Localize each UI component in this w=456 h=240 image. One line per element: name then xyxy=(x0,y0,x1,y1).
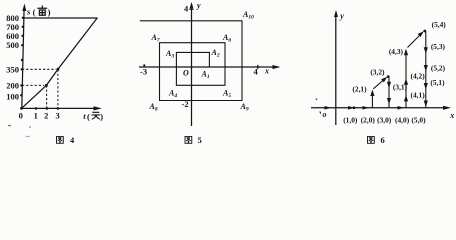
fig6 vertical segment x=3 from (3,2) to (3,0) xyxy=(388,77,390,108)
fig6 y-axis xyxy=(335,14,337,125)
fig5 tick at x=-3 xyxy=(143,65,145,67)
svg-text:(5,3): (5,3) xyxy=(431,42,446,51)
fig6 diagonal (4,3) to (5,4) xyxy=(408,34,422,48)
fig6 down arrowhead at (3,1) xyxy=(387,82,391,89)
svg-text:y: y xyxy=(339,12,344,21)
fig6 up arrowhead at (4,3) xyxy=(404,49,408,56)
svg-text:(4,0): (4,0) xyxy=(395,116,410,125)
fig4 x-axis xyxy=(22,107,96,109)
fig5 x-axis arrowhead xyxy=(273,65,281,69)
svg-text:(: ( xyxy=(87,112,90,122)
fig6 y-axis arrowhead xyxy=(334,10,338,17)
fig6 up arrowhead at (4,1) xyxy=(404,95,408,102)
fig6 down arrowhead at (5,2) xyxy=(424,65,428,72)
svg-text:o: o xyxy=(323,110,327,119)
fig5 spiral polyline A1..A11 xyxy=(140,21,242,101)
svg-text:(2,0): (2,0) xyxy=(361,116,376,125)
fig5 caption 图 5 xyxy=(185,136,192,143)
svg-text:(5,4): (5,4) xyxy=(432,20,447,29)
fig6 x-axis xyxy=(311,107,444,109)
svg-text:3: 3 xyxy=(55,111,59,121)
scan speck near fig4 bottom left xyxy=(8,124,11,127)
svg-text:(: ( xyxy=(33,7,36,17)
svg-text:y: y xyxy=(196,1,201,10)
fig4 dashed horizontal at 350 xyxy=(22,68,56,70)
fig4 x-axis arrowhead xyxy=(94,106,102,110)
fig6 diagonal (2,1) to (3,2) xyxy=(373,78,385,89)
svg-text:(5,2): (5,2) xyxy=(431,63,446,72)
svg-text:(2,1): (2,1) xyxy=(352,85,367,94)
svg-text:x: x xyxy=(449,111,454,120)
fig6 caption 图 6 xyxy=(368,136,375,143)
fig4 point at (3,350) xyxy=(56,68,59,71)
fig5 x-axis xyxy=(139,66,274,68)
fig6 dot at (1,0) xyxy=(353,106,356,109)
fig6 diagonal arrowhead at (3,2) xyxy=(381,77,387,83)
fig4 top line at 800 xyxy=(24,17,98,19)
fig6 path arrowhead on axis at (4,0) xyxy=(398,106,405,110)
fig6 diagonal arrowhead at (5,4) xyxy=(418,31,424,37)
svg-text:5: 5 xyxy=(198,135,202,145)
svg-text:(4,1): (4,1) xyxy=(411,90,426,99)
svg-text:(1,0): (1,0) xyxy=(343,116,358,125)
svg-text:): ) xyxy=(48,7,51,17)
svg-text:1: 1 xyxy=(34,111,38,121)
fig6 dot at (3,2) xyxy=(387,75,390,78)
fig4 origin dot xyxy=(20,107,23,110)
fig6 dot at (5,4) xyxy=(423,30,426,33)
fig6 x-axis arrowhead xyxy=(443,106,451,110)
svg-text:(5,1): (5,1) xyxy=(430,78,445,87)
fig4 y-axis xyxy=(22,8,24,109)
fig6 path arrowhead on axis at (1,0) xyxy=(348,106,355,110)
svg-text:200: 200 xyxy=(6,80,19,90)
fig6 down arrowhead at (5,3) xyxy=(424,47,428,54)
svg-text:-2: -2 xyxy=(182,99,189,109)
svg-text:x: x xyxy=(264,67,269,76)
svg-text:(3,1): (3,1) xyxy=(393,82,408,91)
fig6 up arrowhead at (2,1) xyxy=(370,90,374,97)
svg-text:s: s xyxy=(26,6,31,16)
svg-text:100: 100 xyxy=(6,91,19,101)
fig4 point at (2,200) xyxy=(45,84,48,87)
scan speck dot xyxy=(29,126,31,128)
svg-text:O: O xyxy=(183,69,189,78)
fig6 up arrowhead at (4,2) xyxy=(404,78,408,85)
fig4 dashed vertical at t=2 xyxy=(46,85,48,108)
svg-text:2: 2 xyxy=(44,111,48,121)
scan speck near fig6 origin xyxy=(316,98,318,100)
svg-text:(5,0): (5,0) xyxy=(411,116,426,125)
fig6 down arrowhead at (5,0) xyxy=(424,101,428,108)
fig5 tick dot at x=4 xyxy=(257,66,259,68)
fig4 rising line xyxy=(22,18,98,109)
svg-text:4: 4 xyxy=(184,4,189,14)
svg-text:500: 500 xyxy=(6,40,19,50)
fig4 x-axis tick dots 1,2,3 xyxy=(35,107,38,110)
fig5 tick at y=4 xyxy=(189,8,193,10)
svg-text:(4,2): (4,2) xyxy=(411,72,426,81)
svg-text:(3,2): (3,2) xyxy=(370,67,385,76)
fig4 dashed vertical at t=3 xyxy=(57,70,59,109)
fig6 stray mark before o xyxy=(320,112,321,114)
fig5 y-axis xyxy=(191,5,193,127)
fig4 caption 图 4 xyxy=(57,136,64,143)
svg-text:(3,0): (3,0) xyxy=(377,116,392,125)
fig4 y-axis tick dots xyxy=(22,17,24,19)
scan speck faint dash below fig4 axis xyxy=(26,135,30,137)
fig6 down arrowhead at (5,1) xyxy=(424,83,428,90)
fig5 y-axis arrowhead xyxy=(190,2,194,9)
svg-text:6: 6 xyxy=(381,135,385,145)
fig6 vertical segment x=2 from (2,0) to (2,1) xyxy=(371,92,373,108)
fig6 vertical segment x=5 from (5,4) to (5,0) xyxy=(425,31,427,108)
svg-text:-3: -3 xyxy=(140,67,147,77)
svg-text:350: 350 xyxy=(6,64,19,74)
fig5 tick dot at x=-3 xyxy=(143,64,145,66)
svg-text:): ) xyxy=(100,112,103,122)
fig6 down arrowhead at (3,0) xyxy=(387,98,391,105)
fig4 dashed horizontal at 200 xyxy=(22,84,44,86)
fig6 path arrowhead on axis before origin xyxy=(325,106,332,110)
svg-text:0: 0 xyxy=(19,111,23,121)
svg-text:(4,3): (4,3) xyxy=(389,47,404,56)
fig5 tick at x=4 xyxy=(257,65,259,69)
fig4 y-axis arrowhead xyxy=(22,4,26,12)
fig6 vertical segment x=4 from (4,0) to (4,3) xyxy=(405,50,407,108)
fig6 path arrowhead on axis at (2,0) xyxy=(363,106,370,110)
